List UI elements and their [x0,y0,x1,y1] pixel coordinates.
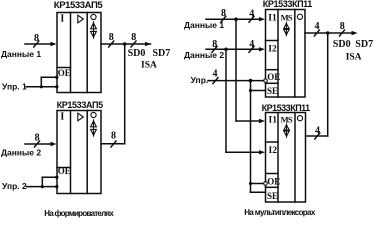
svg-text:8: 8 [34,33,39,44]
label 8 on ISA bus right [340,21,345,32]
label 8 on Данные 2 [35,132,40,143]
buffer DD2 output circle O [91,112,96,117]
buffer DD2 bidirectional arrow symbol [91,120,97,136]
svg-text:4: 4 [315,21,320,32]
wire to DD4 SE [251,191,266,193]
svg-text:Упр. 2: Упр. 2 [2,181,27,191]
wire Данные 1 half to DD4 I1 [236,19,265,123]
wire Упр. 1 [26,77,57,87]
junction node Данные 1 tap [234,17,238,21]
junction node Данные 2 tap [224,48,228,52]
wire vertical right SD bus [327,33,329,136]
svg-text:8: 8 [340,21,345,32]
svg-text:SD0: SD0 [333,39,351,50]
wire to DD4 OE [251,183,264,185]
node OE1 lower pin dot [55,85,58,88]
svg-text:На мультиплексорах: На мультиплексорах [244,208,316,217]
multiplexer DD4 pin label SE [267,191,278,201]
svg-text:КР1533КП11: КР1533КП11 [263,0,313,9]
label 4 on DD4 output [315,125,320,136]
buffer DD1 pin label I [60,14,64,25]
label ISA [141,61,157,71]
multiplexer DD3 pin label SE [267,86,278,96]
svg-text:ОЕ: ОЕ [58,166,71,176]
svg-text:I1: I1 [269,116,278,126]
label SD0 SD7 right [333,39,373,50]
svg-text:КР1533АП5: КР1533АП5 [54,0,104,11]
multiplexer DD3 body [266,10,306,98]
buffer DD2 pin label OE [58,166,71,176]
svg-text:КР1533КП11: КР1533КП11 [262,103,311,113]
label ISA right [346,53,362,63]
svg-text:Данные 1: Данные 1 [1,49,41,59]
label 8 before junction [109,32,114,43]
buffer DD2 КР1533АП5 label [57,100,104,110]
junction node SD bus [123,42,127,46]
multiplexer DD4 output circle O [297,116,302,121]
multiplexer DD3 pin label I1 [268,13,277,23]
multiplexer DD4 pin label I1 [269,116,278,126]
svg-text:ISA: ISA [141,61,157,71]
wire DD1 output to ISA [101,41,151,47]
buffer DD2 pin label I [60,112,64,123]
junction node right SD bus [326,31,330,35]
label Упр. 2 [2,181,27,191]
multiplexer DD4 bidirectional arrow symbol [284,124,289,137]
svg-text:КР1533АП5: КР1533АП5 [57,100,104,110]
junction dot Упр.2 branch [41,185,44,188]
multiplexer DD3 output circle O [297,14,302,19]
svg-text:4: 4 [249,39,254,50]
node OE2 upper pin dot [55,176,58,179]
junction node SE tee [249,89,252,92]
label Данные 2 right [184,50,224,60]
multiplexer DD4 pin label I2 [269,146,278,156]
svg-text:I: I [60,112,64,123]
svg-text:Данные 2: Данные 2 [1,147,41,157]
svg-text:SD0: SD0 [128,48,146,59]
buffer DD1 body [57,13,101,93]
caption На мультиплексорах [244,208,316,217]
wire Упр. branch to DD3 SE [251,81,266,91]
buffer DD1 output circle O [91,14,96,19]
wire vertical SD bus [124,44,126,144]
svg-text:ОЕ: ОЕ [267,177,280,187]
label 4 lower half [249,39,254,50]
wire Данные 2 to DD3 I2 [206,46,265,52]
junction dot Упр.1 branch [40,85,43,88]
wire Данные 1 input bus [25,41,57,47]
svg-text:На формирователях: На формирователях [44,209,114,218]
svg-text:4: 4 [315,125,320,136]
wire Упр. 2 [27,177,58,186]
label Упр. 1 [2,82,27,92]
svg-text:SD7: SD7 [355,39,373,50]
multiplexer DD4 OE inversion bubble [264,182,268,186]
buffer DD1 bidirectional arrow symbol [91,22,97,38]
label 8 on DD2 output [111,131,116,142]
label 4 upper half [249,9,254,20]
label Данные 2 [1,147,41,157]
svg-text:SE: SE [267,191,278,201]
label 8 on Данные 2 right [212,39,217,50]
wire Упр. vertical to DD4 [250,91,252,193]
buffer DD1 КР1533АП5 label [54,0,104,11]
label 4 on Упр. [213,69,218,80]
label Данные 1 right [184,20,224,30]
svg-text:ОЕ: ОЕ [267,72,280,82]
wire Данные 2 input bus [25,141,57,147]
multiplexer DD3 bidirectional arrow symbol [284,22,289,35]
node OE1 upper pin dot [55,76,58,79]
svg-text:I2: I2 [269,146,278,156]
multiplexer DD3 pin label OE [267,72,280,82]
multiplexer DD4 body [266,113,306,203]
svg-text:MS: MS [281,114,293,124]
buffer DD1 amplifier triangle [78,15,84,23]
svg-text:I: I [60,14,64,25]
junction node DD4 OE tee [249,182,252,185]
svg-text:4: 4 [249,9,254,20]
svg-text:MS: MS [281,12,293,22]
label Упр. [191,75,209,85]
wire Упр. to DD3 OE [208,78,264,84]
svg-text:Данные 2: Данные 2 [184,50,224,60]
wire DD4 output to right SD bus [306,133,328,139]
label 8 after junction [131,32,136,43]
svg-text:8: 8 [35,132,40,143]
svg-text:8: 8 [221,8,226,19]
svg-text:4: 4 [213,69,218,80]
label 8 on Данные 1 right [221,8,226,19]
label SD0 SD7 [128,48,171,59]
buffer DD2 amplifier triangle [78,113,84,121]
junction node Упр. branch [249,79,253,83]
buffer DD2 body [57,111,101,194]
svg-text:SE: SE [267,86,278,96]
buffer DD1 pin label OE [58,68,71,78]
label 8 on Данные 1 [34,33,39,44]
multiplexer DD3 КР1533КП11 label [263,0,313,9]
svg-text:Данные 1: Данные 1 [184,20,224,30]
svg-text:Упр. 1: Упр. 1 [2,82,27,92]
label Данные 1 [1,49,41,59]
svg-text:8: 8 [212,39,217,50]
multiplexer DD3 label MS [281,12,293,22]
svg-text:I1: I1 [268,13,277,23]
multiplexer DD3 OE inversion bubble [264,79,268,83]
wire DD2 output to SD bus [101,141,125,147]
svg-text:ОЕ: ОЕ [58,68,71,78]
multiplexer DD3 pin label I2 [268,45,277,55]
wire DD3 output to ISA [305,30,358,36]
wire Данные 2 half to DD4 I2 [226,49,265,154]
svg-text:8: 8 [131,32,136,43]
svg-text:I2: I2 [268,45,277,55]
svg-text:8: 8 [109,32,114,43]
multiplexer DD4 КР1533КП11 label [262,103,311,113]
multiplexer DD4 label MS [281,114,293,124]
caption На формирователях [44,209,114,218]
svg-text:8: 8 [111,131,116,142]
label 4 on DD3 output [315,21,320,32]
svg-text:Упр.: Упр. [191,75,209,85]
svg-text:ISA: ISA [346,53,362,63]
node OE2 lower pin dot [55,185,58,188]
wire Данные 1 to DD3 I1 [206,16,265,22]
svg-text:SD7: SD7 [153,48,171,59]
multiplexer DD4 pin label OE [267,177,280,187]
